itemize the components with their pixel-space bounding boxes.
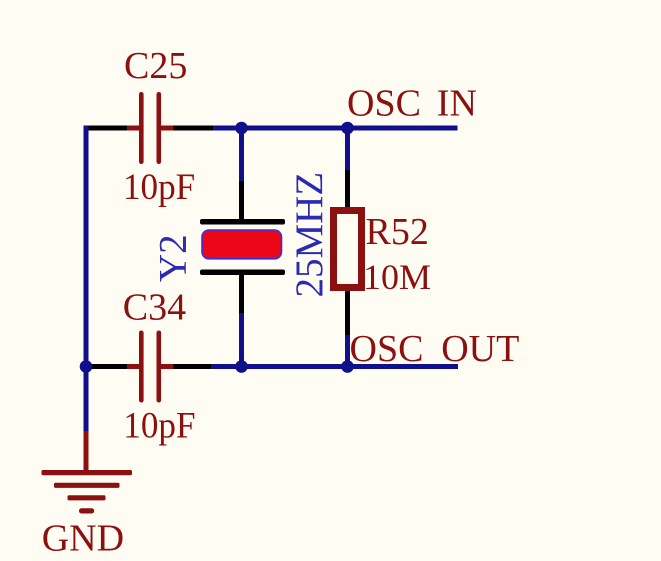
wire: resistor R52 top branch [345,128,350,170]
wire: crystal Y2 bottom branch [239,312,244,367]
svg-text:25MHZ: 25MHZ [288,172,331,298]
resistor R52 [334,170,362,335]
junction: OSC_IN / C25 / Y2 [235,122,248,135]
svg-text:C34: C34 [123,287,186,329]
junction: OSC_IN / R52 [341,122,354,135]
svg-text:Y2: Y2 [152,234,195,282]
ground GND symbol [42,431,133,514]
wire: OSC_OUT horizontal run (right of C34) [211,364,458,369]
svg-text:OSC: OSC [347,83,421,125]
svg-text:GND: GND [42,517,124,559]
junction: OSC_OUT / Y2 [235,360,248,373]
junction: left net / C34 / GND [80,360,93,373]
net label OSC_IN [347,83,477,125]
wire: resistor R52 bottom branch [345,334,350,367]
svg-text:IN: IN [437,83,477,125]
wire: crystal Y2 top branch [239,128,244,181]
svg-text:OUT: OUT [441,328,519,370]
svg-text:R52: R52 [366,211,429,253]
wire: GND stem (blue part) [84,367,89,432]
svg-text:10M: 10M [363,257,431,297]
capacitor C34 [89,331,212,403]
capacitor C25 [89,92,214,164]
crystal Y2 [200,181,285,313]
svg-text:C25: C25 [124,45,187,87]
svg-text:OSC: OSC [350,328,424,370]
svg-text:10pF: 10pF [123,167,195,208]
wire: OSC_IN horizontal run (right of C25) [213,126,458,131]
net label OSC_OUT [350,328,520,370]
svg-text:10pF: 10pF [123,406,195,447]
wire: left vertical (C25/C34/GND net) [84,126,89,370]
junction: OSC_OUT / R52 [341,360,354,373]
